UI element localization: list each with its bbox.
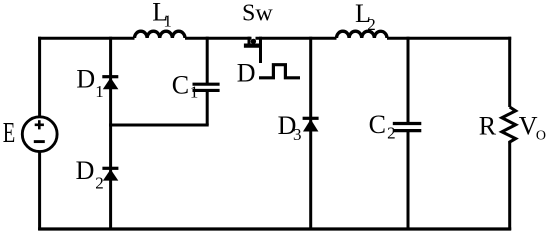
- svg-text:C: C: [172, 71, 189, 100]
- svg-text:1: 1: [190, 83, 199, 102]
- svg-text:1: 1: [163, 11, 172, 30]
- svg-text:2: 2: [95, 174, 104, 193]
- svg-text:D: D: [76, 65, 95, 94]
- svg-text:O: O: [536, 129, 546, 144]
- svg-text:R: R: [479, 111, 497, 140]
- svg-text:2: 2: [387, 124, 396, 143]
- svg-text:1: 1: [95, 82, 104, 101]
- svg-text:E: E: [3, 118, 16, 149]
- svg-text:D: D: [76, 156, 95, 185]
- svg-text:2: 2: [367, 15, 376, 34]
- svg-text:D: D: [237, 58, 256, 87]
- svg-text:3: 3: [293, 125, 302, 144]
- svg-text:Sw: Sw: [242, 1, 273, 27]
- svg-text:C: C: [369, 110, 386, 139]
